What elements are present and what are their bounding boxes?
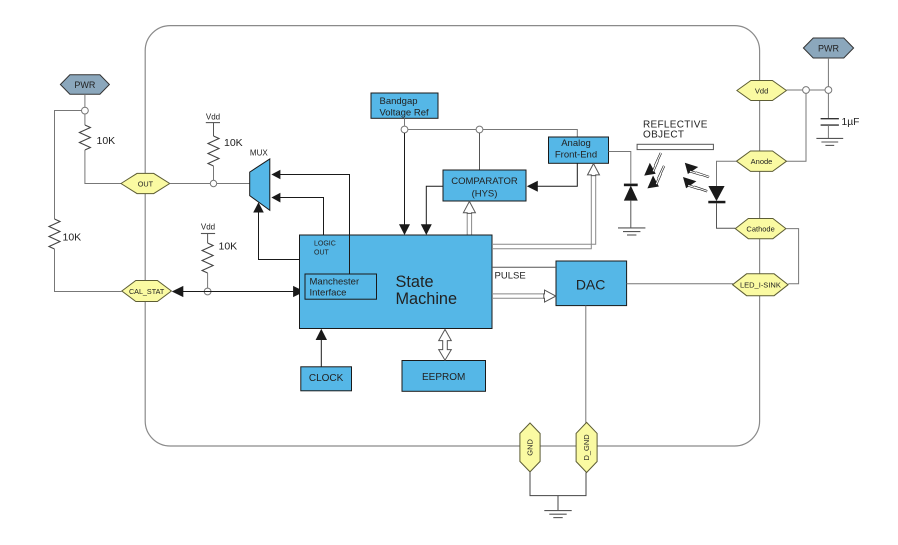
- node junction on CAL_STAT wire: [204, 288, 211, 295]
- wire PWR to node: [84, 94, 86, 107]
- svg-text:10K: 10K: [97, 135, 116, 147]
- node junction Vdd-cap: [825, 87, 832, 94]
- open arrowhead into DAC: [544, 290, 556, 302]
- light ray arrow toward photodiode 1: [640, 153, 669, 180]
- svg-text:LOGIC: LOGIC: [314, 240, 336, 247]
- wire MUX input 2 from state machine: [280, 198, 324, 236]
- svg-text:10K: 10K: [63, 232, 82, 244]
- ground (bottom): [544, 511, 571, 518]
- resistor 10K (Vdd pull-up OUT): [208, 136, 243, 181]
- wire node1 to state machine: [404, 133, 406, 225]
- LOGIC OUT compartment line: [349, 235, 351, 274]
- reflective object bar: [637, 144, 713, 149]
- svg-text:DAC: DAC: [576, 276, 606, 292]
- pin OUT: [121, 173, 170, 193]
- node junction bandgap 1: [401, 126, 408, 133]
- capacitor C 1uF: [821, 93, 860, 138]
- arrowhead into state machine (comparator): [421, 224, 432, 235]
- pin Anode: [737, 151, 787, 171]
- svg-text:Vdd: Vdd: [201, 223, 215, 232]
- arrowhead into comparator: [527, 181, 538, 192]
- wire CLOCK to state machine: [320, 339, 322, 367]
- svg-text:LED_I-SINK: LED_I-SINK: [740, 281, 781, 290]
- pin GND: [520, 423, 540, 472]
- pin Cathode: [735, 219, 786, 239]
- wire DAC to D_GND: [585, 306, 587, 423]
- Vdd supply stub (upper): [206, 113, 220, 137]
- wire DAC to LED_I-SINK: [627, 283, 733, 285]
- arrowhead into state machine (clock): [316, 329, 327, 340]
- ground (photodiode): [618, 228, 645, 235]
- svg-text:Machine: Machine: [396, 290, 458, 308]
- svg-text:Interface: Interface: [310, 288, 347, 299]
- svg-text:10K: 10K: [224, 137, 243, 149]
- open arrowhead into AFE bottom: [588, 164, 600, 176]
- wire CAL_STAT bidirectional: [182, 291, 295, 293]
- light ray arrow toward photodiode 2: [644, 166, 673, 193]
- bandgap reference bus wire: [405, 130, 578, 138]
- svg-text:MUX: MUX: [250, 149, 268, 158]
- Vdd supply stub (lower): [201, 223, 215, 244]
- svg-text:EEPROM: EEPROM: [422, 372, 465, 383]
- svg-text:CAL_STAT: CAL_STAT: [129, 287, 165, 296]
- MUX input 1 arrowhead: [271, 170, 280, 180]
- wire rail to CAL_STAT: [55, 249, 122, 292]
- PWR symbol (right): [803, 38, 853, 58]
- Bandgap Voltage Ref block: [371, 93, 438, 118]
- wire comparator to state machine: [426, 186, 443, 225]
- svg-text:Anode: Anode: [751, 157, 773, 166]
- svg-text:State: State: [396, 273, 434, 291]
- wire AFE to photodiode: [609, 152, 631, 184]
- resistor 10K (left rail): [49, 219, 60, 249]
- pin D_GND: [576, 422, 597, 472]
- MUX input 2 arrowhead: [271, 193, 280, 203]
- hollow wire state machine to DAC: [492, 294, 545, 298]
- MUX select arrowhead: [253, 202, 264, 212]
- multiplexer MUX: [250, 159, 270, 210]
- node junction on OUT wire: [210, 180, 216, 186]
- light ray arrow from LED 2: [679, 173, 708, 200]
- wire node to Anode: [787, 93, 807, 161]
- svg-text:10K: 10K: [219, 241, 238, 253]
- wire node2 to comparator top: [479, 133, 481, 170]
- wire bandgap to node: [404, 118, 406, 126]
- svg-text:OUT: OUT: [138, 179, 154, 188]
- Analog Front-End block: [549, 137, 609, 163]
- hollow wire state machine to AFE: [492, 175, 596, 248]
- hollow wire state machine to comparator: [467, 213, 471, 235]
- wire Anode to LED: [717, 161, 737, 186]
- CLOCK block: [301, 367, 352, 391]
- svg-text:CLOCK: CLOCK: [309, 373, 344, 384]
- PWR symbol (left): [60, 75, 109, 94]
- ground stem: [557, 496, 559, 511]
- arrowhead into Manchester Interface: [293, 286, 305, 297]
- svg-text:(HYS): (HYS): [472, 189, 498, 200]
- node junction under PWR: [82, 107, 89, 114]
- open arrowhead into comparator bottom: [463, 201, 475, 213]
- DAC block: [556, 261, 627, 306]
- svg-text:Voltage Ref: Voltage Ref: [380, 107, 429, 118]
- svg-text:PULSE: PULSE: [495, 271, 526, 282]
- light ray arrow from LED 1: [681, 158, 710, 185]
- pin CAL_STAT: [122, 281, 172, 302]
- LED D2: [708, 186, 735, 228]
- svg-text:Front-End: Front-End: [555, 150, 597, 161]
- wire PULSE state machine to DAC: [492, 266, 556, 268]
- svg-text:D_GND: D_GND: [582, 434, 591, 461]
- EEPROM block: [402, 361, 486, 392]
- hollow double arrow state machine / EEPROM: [439, 329, 452, 360]
- node junction bandgap 2: [476, 126, 483, 133]
- svg-text:Vdd: Vdd: [206, 113, 220, 122]
- Manchester Interface block: [305, 274, 377, 299]
- wire AFE to comparator: [538, 163, 578, 186]
- svg-text:COMPARATOR: COMPARATOR: [451, 176, 518, 187]
- wire MUX input 1 from Manchester/LOGIC OUT: [280, 175, 350, 275]
- wire PWR to node: [827, 58, 829, 87]
- IC boundary: [145, 26, 759, 446]
- svg-text:Cathode: Cathode: [746, 224, 774, 233]
- resistor 10K (under PWR): [79, 114, 115, 150]
- svg-text:Analog: Analog: [561, 138, 591, 149]
- state machine block: [300, 235, 493, 329]
- svg-text:Vdd: Vdd: [755, 86, 768, 95]
- arrowhead into CAL_STAT: [172, 286, 184, 297]
- svg-text:GND: GND: [526, 438, 535, 455]
- svg-text:PWR: PWR: [818, 43, 839, 53]
- wire Vdd to PWR/cap: [786, 89, 825, 91]
- photodiode D1: [624, 184, 638, 228]
- wire GND / D_GND to ground: [530, 472, 586, 496]
- svg-text:OBJECT: OBJECT: [643, 129, 684, 140]
- wire resistor to OUT: [85, 150, 122, 184]
- svg-text:OUT: OUT: [314, 249, 330, 256]
- wire node to left rail: [55, 111, 82, 220]
- svg-text:PWR: PWR: [74, 80, 95, 90]
- svg-text:Bandgap: Bandgap: [380, 96, 418, 107]
- wire OUT to MUX: [170, 183, 250, 185]
- ground (capacitor): [816, 138, 843, 145]
- pin Vdd: [737, 81, 787, 101]
- svg-text:Manchester: Manchester: [310, 277, 360, 288]
- resistor 10K (Vdd pull-up CAL_STAT): [202, 241, 237, 289]
- pin LED_I-SINK: [733, 274, 789, 296]
- wire MUX select from state machine: [259, 213, 300, 260]
- wire Cathode to LED_I-SINK loop: [786, 229, 799, 284]
- arrowhead into state machine (bandgap): [399, 224, 410, 235]
- svg-text:1µF: 1µF: [842, 117, 860, 128]
- node junction Vdd-Anode: [803, 87, 810, 94]
- COMPARATOR (HYS) block: [443, 170, 526, 201]
